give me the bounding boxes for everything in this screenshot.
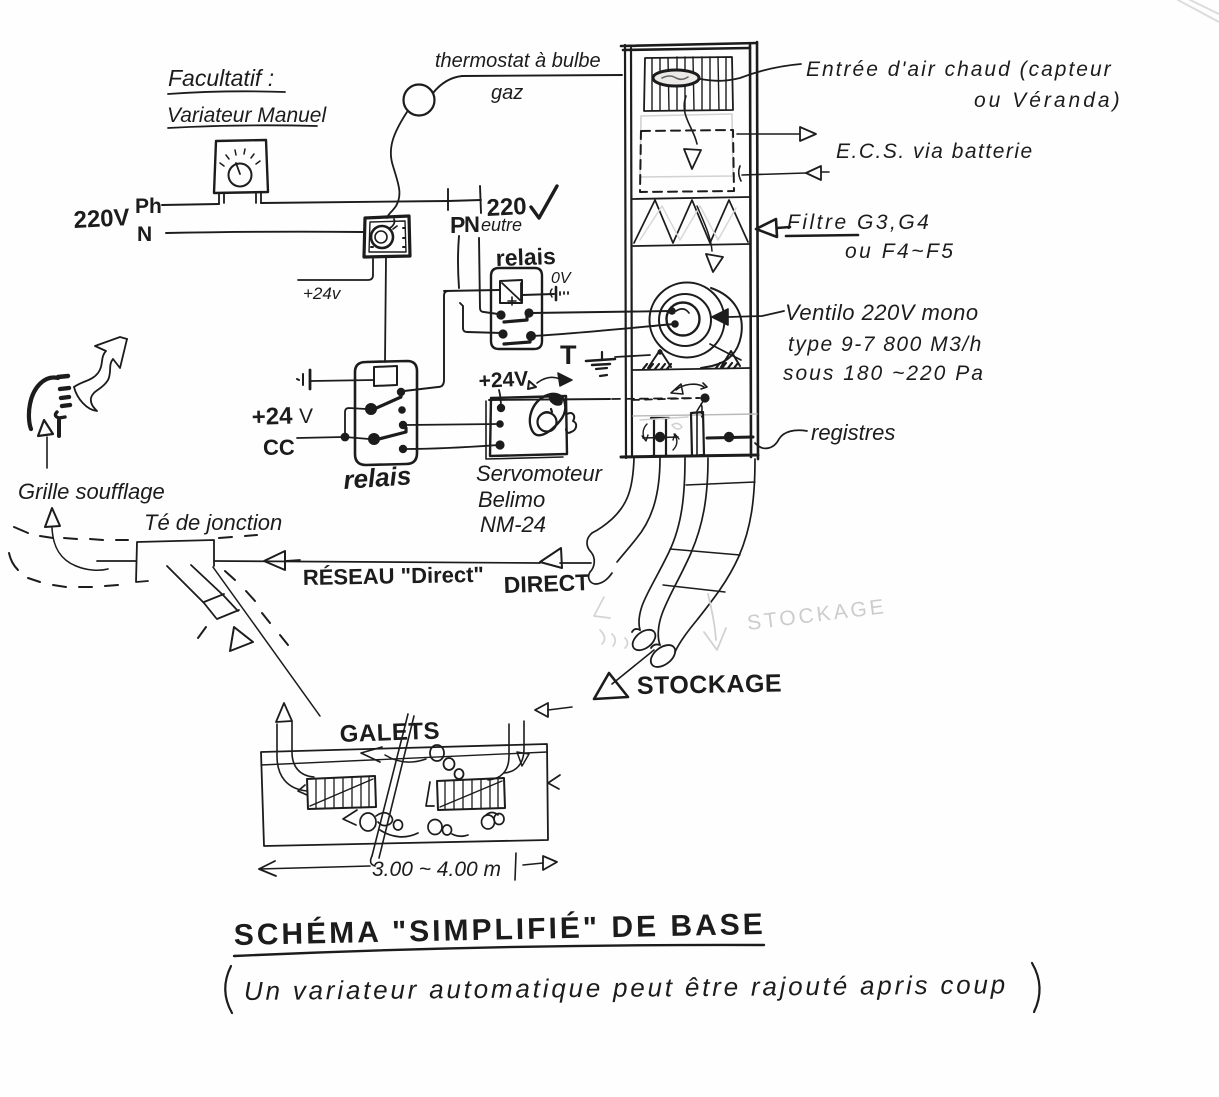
filter top line — [632, 197, 750, 199]
ghost filter zigzag pencil — [640, 206, 736, 240]
pipe B tube end cap 1 — [629, 626, 659, 655]
title SCHEMA SIMPLIFIE DE BASE — [233, 907, 766, 956]
label Neutre — [464, 212, 522, 237]
wire ECS out — [737, 133, 799, 135]
fan scroll — [650, 283, 742, 369]
svg-text:STOCKAGE: STOCKAGE — [637, 669, 783, 700]
arrow on branch line — [230, 627, 253, 651]
fan foot right — [716, 351, 740, 368]
subtitle — [225, 963, 1039, 1013]
ghost arrow down (pencil) — [704, 594, 726, 650]
wire from relay K1 lower contact left — [460, 303, 502, 333]
svg-text:V: V — [299, 405, 313, 428]
wire relay K1 coil to 0V plug — [522, 294, 554, 295]
galets pebbles bottom row — [343, 810, 504, 837]
left inlet pipe of pit — [276, 703, 314, 791]
arrow reseau (open triangle) — [264, 551, 300, 570]
register damper 1 — [642, 418, 679, 456]
galets pebbles top group — [361, 745, 464, 779]
svg-text:220V: 220V — [73, 204, 130, 234]
wire loop from P down to relay K2 contact — [404, 291, 448, 391]
temperature sensor bulb in grille — [653, 70, 699, 86]
relay K1 contact bars — [504, 316, 530, 344]
fan foot left — [643, 349, 671, 369]
wire relay K1 to fan terminal 1 — [531, 311, 671, 313]
ground symbol left of relay K2 — [297, 370, 310, 389]
svg-text:gaz: gaz — [491, 82, 523, 104]
galets pit outline — [261, 744, 548, 846]
arrow up to grille — [38, 420, 53, 468]
relay K2 contact dots — [365, 388, 407, 453]
wire +24V down to servo terminal 1 — [499, 390, 501, 407]
filter bottom line — [633, 244, 750, 246]
line to STOCKAGE triangle — [612, 650, 654, 684]
fan base line — [633, 368, 750, 370]
register damper 3 — [707, 432, 753, 442]
duct bottom — [621, 455, 758, 457]
wire P vertical — [458, 236, 459, 288]
arrow down inside duct — [697, 206, 723, 272]
dimension arrow left — [259, 861, 370, 876]
heat exchanger block left — [298, 776, 376, 809]
svg-text:ou F4~F5: ou F4~F5 — [845, 240, 955, 263]
svg-text:Té de jonction: Té de jonction — [144, 510, 282, 535]
ghost pencil rectangle below grille — [640, 114, 733, 177]
wire servo top to damper (solid part) — [489, 399, 610, 400]
pipe B tube end cap 2 — [647, 641, 680, 672]
pipe B outer left line — [639, 458, 685, 630]
right inlet pipe of pit — [488, 703, 572, 780]
wire relay K2 to servo terminal 3 — [406, 445, 499, 449]
servomotor cam blob — [530, 394, 576, 435]
label +24V (servo) — [478, 367, 572, 393]
svg-text:Belimo: Belimo — [478, 487, 545, 512]
label 220V Ph N (left) — [73, 195, 162, 246]
damper swing arrow — [671, 383, 707, 417]
svg-text:Entrée d'air chaud (capteur: Entrée d'air chaud (capteur — [806, 58, 1113, 81]
label Entree d'air chaud — [806, 58, 1123, 112]
relay K2 body — [355, 361, 417, 465]
label Variateur Manuel — [167, 104, 327, 128]
air out wavy arrow — [74, 337, 127, 411]
relay K2 contact arm 1 — [372, 393, 401, 410]
svg-text:N: N — [464, 212, 480, 237]
register damper 2 — [691, 412, 704, 456]
label thermostat a bulbe gaz — [435, 50, 601, 104]
dimension arrow right — [523, 856, 557, 870]
damper control dashed line — [632, 398, 698, 400]
ghost marks left of pipes (pencil) — [594, 597, 628, 648]
pit inner top line — [261, 752, 547, 765]
svg-text:Ph: Ph — [135, 195, 162, 218]
wire thermostat to duct — [433, 75, 622, 93]
line te branch to galets — [213, 567, 320, 716]
intake grille hatch — [644, 57, 733, 111]
svg-text:N: N — [137, 223, 152, 246]
wire Neutre vertical to relay K1 contact — [479, 238, 498, 314]
arrow up from te to grille label — [45, 508, 108, 570]
label +24 V CC — [251, 403, 313, 460]
servomotor terminal dots — [495, 404, 505, 450]
scan mark top right corner — [1178, 0, 1219, 22]
servomotor U1 body — [486, 396, 567, 459]
wire node up to contact R2b — [345, 408, 366, 437]
relay K1 body — [491, 268, 542, 349]
svg-text:ou Véranda): ou Véranda) — [974, 89, 1123, 112]
svg-text:DIRECT: DIRECT — [503, 569, 589, 598]
arrow STOCKAGE triangle — [594, 673, 628, 699]
wire sensor to label — [700, 64, 801, 81]
svg-text:Servomoteur: Servomoteur — [476, 461, 604, 486]
wire N — [166, 232, 364, 233]
label 220V (check) — [486, 186, 557, 222]
tick node P on Ph wire — [447, 189, 449, 210]
te branch diagonal — [167, 565, 239, 619]
heat exchanger block right — [426, 775, 560, 810]
svg-text:0V: 0V — [551, 270, 572, 287]
wire relay K1 to fan terminal 2 — [532, 324, 674, 336]
svg-text:type 9-7 800 M3/h: type 9-7 800 M3/h — [788, 333, 983, 356]
damper node dot — [700, 393, 709, 402]
filter zigzag — [634, 200, 748, 243]
arrow into fan — [712, 309, 784, 325]
dashed ducts around te — [9, 527, 288, 645]
te de jonction body — [97, 540, 214, 582]
svg-text:+24v: +24v — [303, 284, 342, 303]
wire +24V from left to junction box — [298, 259, 373, 280]
junction box (capteur) — [364, 216, 410, 257]
svg-text:NM-24: NM-24 — [480, 512, 546, 537]
svg-text:Grille soufflage: Grille soufflage — [18, 479, 165, 504]
wire Ph — [162, 200, 481, 205]
svg-text:RÉSEAU "Direct": RÉSEAU "Direct" — [303, 562, 484, 590]
wire thermostat capillary down to junction box — [387, 112, 407, 218]
ghost pencil marks registers — [640, 417, 688, 429]
svg-text:CC: CC — [263, 435, 295, 460]
dial legs — [219, 192, 261, 204]
grille soufflage symbol — [29, 376, 70, 436]
wire node to contact R2d — [345, 437, 369, 439]
wire ground to fan frame — [615, 355, 650, 357]
relay K1 coil symbol — [500, 280, 522, 305]
svg-text:GALETS: GALETS — [339, 718, 440, 748]
thermostat bulb circle — [404, 85, 435, 116]
svg-text:relais: relais — [495, 243, 556, 271]
pipe B mid line — [658, 458, 708, 645]
pipe A end cap wavy — [587, 533, 612, 584]
duct right wall — [750, 42, 758, 459]
duct left wall — [625, 45, 632, 458]
node junction dot +24V CC — [341, 433, 350, 442]
arrow ECS return — [806, 166, 821, 180]
svg-text:Filtre G3,G4: Filtre G3,G4 — [787, 211, 931, 234]
arrow DIRECT (open triangle) — [540, 548, 562, 568]
svg-text:+24: +24 — [251, 403, 293, 431]
svg-text:sous 180 ~220 Pa: sous 180 ~220 Pa — [783, 362, 985, 385]
label Ventilo 220V mono — [783, 300, 985, 385]
svg-text:3.00 ~ 4.00 m: 3.00 ~ 4.00 m — [372, 858, 501, 881]
E.C.S. battery dashed box — [640, 130, 734, 192]
potentiometer dial (variateur manuel) — [214, 140, 268, 193]
pipe A right edge — [617, 458, 660, 562]
arrow grille to ECS battery — [684, 96, 701, 169]
svg-text:+24V: +24V — [478, 367, 529, 393]
arrow ECS out — [800, 127, 816, 141]
wire junction box down to relay K2 coil — [385, 258, 386, 362]
wire ground to relay K2 coil — [311, 380, 374, 381]
registers band top line — [633, 414, 757, 416]
pipe A left edge (direct duct) — [592, 458, 634, 533]
svg-text:relais: relais — [342, 460, 412, 495]
relay K2 contact arm 2 — [375, 428, 406, 440]
wire ECS return — [739, 166, 829, 181]
ground symbol (terre) — [586, 352, 615, 376]
reseau direct main line — [214, 561, 591, 563]
svg-text:Facultatif :: Facultatif : — [168, 65, 274, 91]
relay K1 contact dots — [496, 308, 536, 341]
wire P to relay K1 coil — [444, 290, 499, 291]
svg-text:registres: registres — [811, 420, 895, 445]
label Filtre G3,G4 ou F4~F5 — [786, 211, 955, 263]
svg-text:Variateur Manuel: Variateur Manuel — [167, 104, 327, 127]
wire +24V CC to relay K2 — [297, 437, 344, 438]
duct top — [621, 43, 757, 50]
relay K2 coil — [374, 366, 397, 386]
svg-text:thermostat à bulbe: thermostat à bulbe — [435, 50, 601, 72]
tick node Neutre on Ph wire — [480, 186, 481, 213]
svg-text:Ventilo 220V mono: Ventilo 220V mono — [785, 300, 979, 325]
label registres — [755, 420, 895, 448]
pipe B joint lines — [663, 482, 755, 592]
arrow filter label — [756, 219, 790, 237]
pipe B right line — [675, 459, 755, 652]
svg-text:T: T — [560, 340, 577, 370]
wire relay K2 to servo terminal 2 — [406, 424, 499, 425]
0V plug symbol — [551, 287, 569, 300]
label Servomoteur Belimo NM-24 — [476, 461, 604, 537]
label 3.00 ~ 4.00 m — [372, 853, 516, 881]
label Facultatif — [168, 65, 285, 94]
fan terminal dots — [668, 307, 679, 328]
wire servo to damper dashed — [612, 398, 700, 399]
big slash strokes — [371, 714, 414, 866]
svg-text:E.C.S. via batterie: E.C.S. via batterie — [836, 140, 1034, 163]
svg-text:eutre: eutre — [481, 215, 522, 235]
